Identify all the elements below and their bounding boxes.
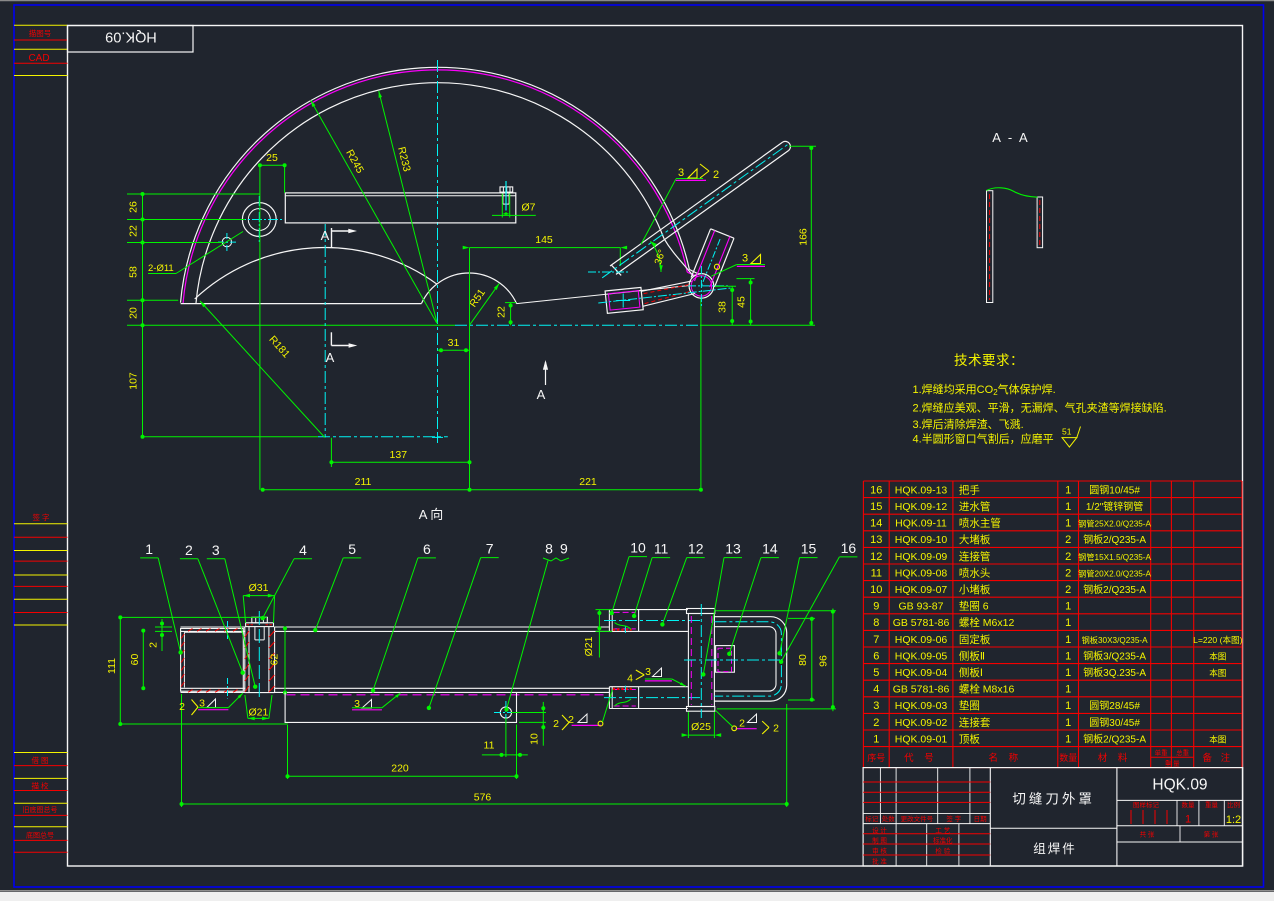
dim 137 [329,438,471,467]
svg-text:2: 2 [1065,551,1071,563]
BOM table rows [870,483,1242,745]
section mark A lower [326,332,358,365]
tech req line4 [913,432,1054,446]
svg-text:2: 2 [568,714,574,726]
svg-text:1: 1 [1065,700,1071,712]
main horizontal centerline green part right [700,324,815,326]
radius leader R245 [311,100,437,323]
svg-text:2: 2 [1065,534,1071,546]
bolt M6 head [500,187,513,192]
callout 2 [180,542,245,675]
assembly type text [1033,841,1077,856]
tech req line3 [913,417,1024,431]
title block left labels [865,814,987,866]
svg-text:20: 20 [128,307,140,319]
callout 13 [701,541,742,677]
svg-text:顶板: 顶板 [959,732,980,745]
ext line y194 [127,193,260,195]
center cross mark [432,432,443,443]
small hole 11 [222,237,231,246]
svg-text:材 料: 材 料 [1098,752,1132,764]
svg-text:2: 2 [185,542,193,558]
svg-text:12: 12 [688,541,704,557]
svg-text:14: 14 [762,541,778,557]
svg-text:15: 15 [870,501,882,513]
weld symbol left box [179,693,243,715]
window bump arc R51 [422,273,517,304]
left strip bottom cells [14,753,68,853]
svg-text:签 字: 签 字 [946,814,961,823]
svg-text:96: 96 [818,655,830,667]
svg-text:签 字: 签 字 [32,512,49,522]
svg-text:1.焊缝均采用CO2气体保护焊.: 1.焊缝均采用CO2气体保护焊. [913,382,1056,397]
svg-text:11: 11 [871,567,882,579]
svg-text:单重: 单重 [1155,748,1169,757]
svg-text:借 图: 借 图 [31,755,48,765]
svg-text:111: 111 [106,658,118,674]
bolt M6 shank [503,192,509,204]
callout 4 [261,542,313,621]
svg-text:重量: 重量 [1205,801,1219,809]
dim 80 [788,617,815,702]
svg-text:GB 5781-86: GB 5781-86 [893,684,950,696]
ext line y219 [127,219,245,221]
left strip label CAD [28,53,49,64]
dim 25 [258,152,287,202]
dim 11 [482,718,528,779]
section mark A upper [321,228,357,247]
callout 1 [140,541,183,655]
svg-text:技术要求：: 技术要求： [954,353,1024,368]
svg-text:1: 1 [1065,650,1071,662]
sleeve box [605,287,643,313]
short tube outline [691,229,734,287]
svg-text:62: 62 [269,654,281,666]
svg-text:HQK.09-02: HQK.09-02 [895,717,948,729]
svg-text:HQK.09-09: HQK.09-09 [895,551,948,563]
svg-text:A 向: A 向 [419,507,444,522]
handle tube cap arc [783,141,791,150]
svg-text:日期: 日期 [974,815,988,823]
dim 211 [261,476,472,492]
svg-text:Ø21: Ø21 [583,636,595,656]
svg-text:1: 1 [873,733,879,745]
svg-text:7: 7 [873,634,879,646]
svg-text:钢管25X2.0/Q235-A: 钢管25X2.0/Q235-A [1078,519,1151,529]
svg-text:A: A [321,228,330,243]
BOM table grid [863,481,1242,768]
weld symbol spray [627,666,686,686]
svg-text:HQK.09-12: HQK.09-12 [895,501,948,513]
tech req line1 [913,382,1056,397]
svg-text:钢板2/Q235-A: 钢板2/Q235-A [1083,732,1146,745]
bottom band [181,688,610,692]
A-A title [992,130,1029,145]
svg-text:本图: 本图 [1209,733,1226,744]
svg-text:处数: 处数 [882,814,896,823]
svg-text:16: 16 [870,484,882,496]
svg-text:序号: 序号 [867,752,885,763]
svg-text:1: 1 [1065,484,1071,496]
svg-text:3: 3 [212,542,220,558]
A-A left strip [987,191,993,303]
main spray pipe box [687,604,715,718]
dim 576 [180,694,789,807]
dim 96 [716,609,836,712]
dim 221 [470,476,703,492]
svg-text:2: 2 [179,701,185,713]
washer plate [246,623,274,627]
svg-text:标准化: 标准化 [933,836,953,845]
handle loop centerline [714,622,781,696]
A-A green top curve [987,188,1038,197]
svg-text:HQK.09: HQK.09 [1152,777,1207,794]
dim 26 [128,201,140,213]
dim 166 [789,146,816,325]
dim 31 [438,337,470,352]
left strip label mid [32,512,49,522]
rotated HQK.09 text [105,29,157,45]
svg-text:1:2: 1:2 [1226,814,1241,826]
svg-text:HQK.09-03: HQK.09-03 [895,700,948,712]
svg-text:2.焊缝应美观、平滑，无漏焊、气孔夹渣等焊接缺陷.: 2.焊缝应美观、平滑，无漏焊、气孔夹渣等焊接缺陷. [913,400,1167,414]
svg-text:3: 3 [678,167,684,179]
sleeve cross [616,294,630,308]
pulley hole outer circle [242,203,276,237]
svg-text:共 张: 共 张 [1140,830,1155,839]
grind symbol [1062,427,1081,448]
BOM header row [867,748,1233,768]
svg-text:垫圈: 垫圈 [959,699,980,712]
svg-text:45: 45 [736,296,748,308]
svg-text:HQK.09-05: HQK.09-05 [895,650,948,662]
svg-text:1: 1 [1065,733,1071,745]
handle tube centerline [602,143,790,278]
main vertical centerline [437,60,439,437]
svg-text:1: 1 [145,541,153,557]
left dim stack vertical [141,192,145,439]
svg-text:9: 9 [873,601,879,613]
callout 15 [777,541,817,656]
svg-text:底图总号: 底图总号 [26,831,54,840]
callout 10 [610,540,648,616]
svg-text:4: 4 [873,684,879,696]
svg-text:3.焊后清除焊渣、飞溅.: 3.焊后清除焊渣、飞溅. [913,417,1024,431]
short tube magenta lines [695,231,730,288]
svg-text:标记: 标记 [865,814,879,823]
dim 10 [511,702,546,746]
hidden weld line magenta [287,694,609,696]
svg-text:本图: 本图 [1209,667,1226,678]
fixing plate hole [500,707,511,718]
svg-text:1: 1 [1065,667,1071,679]
plate edge sloped line [517,286,689,304]
left box red dashes [181,629,237,693]
left strip label top [29,28,52,38]
dim dia31 [243,582,274,623]
weld symbol bottom right [715,710,779,735]
view direction arrow A [537,360,548,402]
spray tube red dashes [644,285,692,304]
svg-text:把手: 把手 [959,483,980,496]
ext line y242 [127,242,223,244]
svg-text:HQK.09-08: HQK.09-08 [895,567,948,579]
dim 38 [715,286,736,325]
svg-text:2-Ø11: 2-Ø11 [148,263,174,274]
svg-text:数量: 数量 [1182,800,1196,809]
svg-text:固定板: 固定板 [959,633,991,646]
handle loop inner [714,627,776,691]
svg-text:60: 60 [129,654,141,666]
svg-text:221: 221 [579,476,597,488]
pivot crosshair [688,266,729,308]
callout 11 [632,541,670,619]
A-A right strip [1037,197,1043,248]
title block right labels [1131,800,1241,838]
svg-text:名 称: 名 称 [988,752,1022,764]
ext vertical x469 [469,248,471,490]
callout 12 [660,541,705,627]
pulley hole inner circle [248,209,270,231]
svg-text:1/2"镀锌钢管: 1/2"镀锌钢管 [1086,500,1143,513]
svg-text:12: 12 [870,551,882,563]
svg-text:制 图: 制 图 [872,836,887,845]
svg-text:圆钢30/45#: 圆钢30/45# [1089,716,1140,729]
svg-text:3: 3 [873,700,879,712]
callout 7 [427,541,499,711]
svg-text:1: 1 [1065,634,1071,646]
svg-text:11: 11 [654,541,669,557]
section line A-A vertical [324,224,326,437]
svg-text:A: A [537,387,546,402]
svg-text:8: 8 [545,541,553,557]
svg-text:L=220 (本图): L=220 (本图) [1193,634,1243,645]
bolt M6 centerline [505,181,507,211]
dome magenta arc [183,70,698,304]
tech req line2 [913,400,1167,414]
svg-text:A - A: A - A [992,130,1029,145]
svg-text:描图号: 描图号 [29,28,52,38]
svg-text:2: 2 [773,723,779,735]
dim 45 [736,279,755,326]
svg-text:31: 31 [448,337,460,349]
top-left box [68,26,194,53]
svg-text:1: 1 [1185,814,1191,826]
svg-text:1: 1 [1065,717,1071,729]
left side box [181,629,244,692]
svg-text:4: 4 [299,542,307,558]
svg-text:2: 2 [713,169,719,181]
callout 5 [313,541,361,632]
left strip label jietu [31,755,48,765]
svg-text:GB 93-87: GB 93-87 [899,601,944,613]
bolt hole dim line [492,214,536,216]
svg-text:14: 14 [870,518,882,530]
side plate shallow arc R181 [195,248,437,299]
svg-text:HQK.09-06: HQK.09-06 [895,634,948,646]
pivot circle magenta [691,276,711,296]
svg-text:22: 22 [128,225,140,237]
svg-text:HQK.09-07: HQK.09-07 [895,584,948,596]
bolt hole lines [502,194,509,218]
svg-text:组焊件: 组焊件 [1033,841,1077,856]
inlet pipe box [716,646,735,673]
dome base line [181,303,422,305]
svg-text:喷水主管: 喷水主管 [959,517,1001,530]
svg-text:工 艺: 工 艺 [935,826,950,834]
svg-text:5: 5 [873,667,879,679]
svg-text:总重: 总重 [1176,748,1190,757]
weld symbol right [711,253,765,277]
svg-text:22: 22 [496,306,508,318]
spray tube centerline [598,288,731,303]
svg-text:2: 2 [553,718,559,730]
bolt M8 bottom view [252,617,267,640]
svg-text:连接管: 连接管 [959,550,991,563]
svg-text:重 量: 重 量 [1165,760,1180,768]
svg-text:1: 1 [1065,601,1071,613]
drawing number text [1152,777,1207,794]
svg-text:垫圈 6: 垫圈 6 [959,600,989,613]
svg-text:检 验: 检 验 [935,846,950,855]
boss columns [245,627,275,693]
handle loop outer [714,617,786,701]
svg-text:螺栓 M8x16: 螺栓 M8x16 [959,683,1015,696]
svg-text:Ø25: Ø25 [691,721,711,733]
svg-text:切缝刀外罩: 切缝刀外罩 [1012,792,1095,807]
main horizontal centerline cyan part [455,324,700,326]
left strip middle cells [14,524,68,625]
svg-text:1: 1 [1065,518,1071,530]
svg-text:4: 4 [627,673,633,685]
svg-text:小堵板: 小堵板 [959,583,991,596]
fixing plate rect [285,193,516,223]
tech req title [954,353,1024,368]
svg-text:11: 11 [484,740,495,752]
bottom light taskbar strip [0,891,1274,901]
svg-text:5: 5 [348,541,356,557]
svg-text:进水管: 进水管 [959,500,991,513]
dim 20 [128,307,140,319]
svg-text:13: 13 [725,541,741,557]
svg-text:连接套: 连接套 [959,716,991,729]
svg-text:10: 10 [870,584,882,596]
part name text [1012,792,1095,807]
weld symbol mid band [352,693,401,710]
svg-text:25: 25 [266,152,278,164]
radius leader R51 [467,283,499,324]
short tube centerline [701,239,720,286]
svg-text:钢管20X2.0/Q235-A: 钢管20X2.0/Q235-A [1078,568,1151,578]
svg-text:166: 166 [798,228,810,246]
dome inner arc [196,83,693,304]
ext line y300 [127,299,178,301]
svg-text:13: 13 [870,534,882,546]
svg-text:代 号: 代 号 [904,753,938,764]
svg-text:58: 58 [128,266,140,278]
svg-text:螺栓 M6x12: 螺栓 M6x12 [959,616,1015,629]
svg-text:26: 26 [128,201,140,213]
top spray head assembly [604,610,700,633]
A-direction label [419,507,444,522]
svg-text:6: 6 [873,650,879,662]
svg-text:576: 576 [474,792,492,804]
svg-text:2: 2 [1065,567,1071,579]
svg-text:HQK.09: HQK.09 [105,29,157,45]
dim dia21 spray [583,610,612,658]
svg-text:Ø21: Ø21 [248,707,268,719]
svg-text:A: A [326,350,335,365]
left strip top cells [14,25,68,75]
svg-text:107: 107 [128,372,140,390]
angle ref line [588,271,630,273]
weld symbol top [641,164,719,244]
bottom spray head assembly [604,686,700,709]
title block grid [863,768,1243,866]
left box plate centermarks [227,621,229,699]
svg-text:38: 38 [717,301,729,313]
svg-text:10: 10 [630,540,646,556]
svg-text:描 校: 描 校 [31,781,49,791]
svg-text:220: 220 [391,763,409,775]
svg-text:2: 2 [147,642,159,648]
svg-text:3: 3 [645,666,651,678]
svg-text:HQK.09-11: HQK.09-11 [895,518,947,530]
dim 107 [128,372,140,390]
top band [181,627,610,631]
fixing plate hole crosshair [494,701,518,724]
callout 16 [779,540,858,664]
svg-text:大堵板: 大堵板 [959,533,991,546]
dim 220 [286,725,519,779]
ext vertical x700 [700,299,702,490]
main horizontal centerline green part left [127,324,455,326]
svg-text:2: 2 [739,718,745,730]
svg-text:1: 1 [1065,617,1071,629]
svg-text:16: 16 [841,540,857,556]
handle tube outline [610,142,789,275]
pivot circle white [689,274,714,299]
svg-text:钢板3Q.235-A: 钢板3Q.235-A [1083,666,1146,679]
svg-text:钢板2/Q235-A: 钢板2/Q235-A [1083,583,1146,596]
svg-text:数量: 数量 [1059,752,1077,763]
spray tube lines [641,281,695,306]
svg-text:圆钢10/45#: 圆钢10/45# [1089,483,1140,496]
dim 22 left [128,225,140,237]
dome outer arc [181,67,700,302]
weld symbol bottom mid [553,690,612,731]
fixing plate bottom view [285,692,516,722]
svg-text:GB 5781-86: GB 5781-86 [893,617,950,629]
radius leader R181 [200,301,325,438]
label dia7 [522,202,536,214]
left strip label ditu [26,831,54,840]
label 2-dia11 [148,232,243,275]
svg-text:旧底图总号: 旧底图总号 [23,805,58,814]
svg-text:钢板30X3/Q235-A: 钢板30X3/Q235-A [1082,635,1149,645]
callout 14 [727,541,779,656]
dim dia25 [682,712,722,738]
svg-text:9: 9 [560,541,568,557]
dim dia21 boss [245,695,272,720]
svg-text:2: 2 [873,717,879,729]
callout 3 [207,542,258,689]
svg-text:比例: 比例 [1227,800,1240,809]
svg-text:6: 6 [423,541,431,557]
svg-text:侧板Ⅰ: 侧板Ⅰ [959,666,983,679]
boss centerline [258,611,260,697]
svg-text:第 张: 第 张 [1204,830,1219,839]
